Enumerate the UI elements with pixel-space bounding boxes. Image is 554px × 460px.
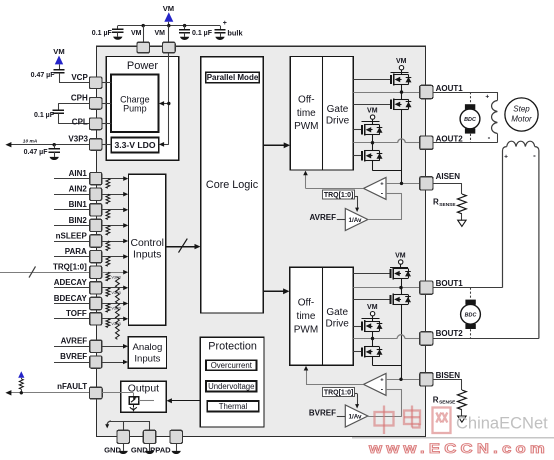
wire VM internal to charge pump and LDO bbox=[159, 53, 169, 147]
wire nSLEEP input bbox=[54, 241, 90, 243]
pin GND 1 bbox=[104, 430, 129, 454]
wire VM rail B2 bbox=[362, 318, 380, 320]
Parallel Mode box bbox=[206, 72, 260, 83]
wire AISEN to sense resistor bbox=[433, 183, 462, 194]
svg-text:VM: VM bbox=[396, 58, 407, 65]
junction VM pin1 bbox=[142, 24, 145, 27]
wire BOUT2 node with hop bbox=[353, 335, 419, 339]
wire Core Logic to PWM B bbox=[263, 288, 289, 294]
svg-text:time: time bbox=[297, 311, 316, 322]
svg-text:www.ECCN.com: www.ECCN.com bbox=[368, 441, 549, 456]
wire AOUT2 external bbox=[433, 142, 498, 144]
svg-text:BVREF: BVREF bbox=[60, 352, 87, 361]
svg-text:TRQ[1:0]: TRQ[1:0] bbox=[324, 390, 354, 397]
svg-text:PWM: PWM bbox=[294, 121, 318, 132]
svg-text:Power: Power bbox=[127, 60, 159, 72]
wire BIN1 to control inputs bbox=[102, 208, 129, 213]
transistor open-drain output bbox=[129, 396, 139, 411]
capacitor 0.1uF top-middle bbox=[179, 26, 213, 40]
pin CPL bbox=[72, 118, 111, 130]
VM supply arrow VCP bbox=[53, 47, 64, 70]
svg-text:BDC: BDC bbox=[465, 312, 477, 318]
svg-text:Inputs: Inputs bbox=[134, 353, 160, 364]
wire BVREF input bbox=[54, 362, 90, 364]
svg-text:+: + bbox=[380, 182, 384, 188]
svg-text:1/Av: 1/Av bbox=[348, 414, 362, 421]
wire nFAULT bbox=[5, 390, 89, 395]
pin AVREF bbox=[61, 336, 102, 352]
junction AOUT1 bbox=[400, 90, 403, 93]
svg-text:+: + bbox=[223, 20, 227, 27]
svg-text:AIN1: AIN1 bbox=[69, 169, 88, 178]
junction VM at charge pump bbox=[167, 102, 170, 105]
svg-text:ADECAY: ADECAY bbox=[54, 278, 88, 287]
pin GND 2 bbox=[131, 430, 156, 454]
3.3-V LDO block bbox=[111, 137, 159, 152]
wire AVREF input bbox=[309, 213, 345, 222]
svg-text:10 mA: 10 mA bbox=[23, 139, 38, 145]
junction BOUT2 bbox=[371, 337, 374, 340]
Control Inputs block bbox=[129, 174, 166, 325]
svg-text:BOUT2: BOUT2 bbox=[436, 329, 464, 338]
wire VM rail A2 bbox=[362, 121, 380, 123]
svg-text:+: + bbox=[485, 94, 489, 101]
wire gate leads B pair1 bbox=[353, 274, 390, 300]
resistor pulldown BIN1 bbox=[106, 210, 110, 220]
wire TRQ[1:0] to control inputs bbox=[102, 270, 129, 275]
capacitor 0.47uF V3P3 bbox=[24, 145, 60, 160]
pin AISEN bbox=[420, 172, 461, 190]
svg-text:-: - bbox=[488, 133, 491, 142]
resistor pulldown ADECAY bbox=[106, 288, 121, 309]
wire scaler B output bbox=[368, 416, 402, 418]
capacitor 0.1uF top-left bbox=[92, 26, 124, 40]
svg-text:Overcurrent: Overcurrent bbox=[211, 361, 253, 370]
Undervoltage box bbox=[206, 381, 257, 391]
pin AIN2 bbox=[69, 185, 102, 201]
wire ADECAY input bbox=[54, 287, 90, 289]
transistor B high-side 2 bbox=[362, 320, 383, 332]
motor BDC B bbox=[461, 288, 481, 339]
wire A2 drain-source bbox=[373, 122, 402, 171]
svg-text:Analog: Analog bbox=[132, 342, 162, 353]
pin VCP bbox=[71, 73, 111, 89]
svg-text:BDECAY: BDECAY bbox=[54, 294, 88, 303]
junction cap2 bbox=[183, 24, 186, 27]
svg-text:AVREF: AVREF bbox=[309, 213, 336, 222]
wire AIN1 to control inputs bbox=[102, 176, 129, 181]
svg-text:Undervoltage: Undervoltage bbox=[208, 382, 254, 391]
junction VM arrow bbox=[167, 24, 170, 27]
wire AIN2 input bbox=[54, 194, 90, 196]
amplifier 1/Av B bbox=[345, 405, 368, 427]
svg-text:R: R bbox=[433, 395, 439, 404]
VM pull-up arrow nFAULT bbox=[18, 371, 24, 379]
capacitor 0.47uF VCP bbox=[31, 70, 65, 79]
wire comparator A output bbox=[303, 171, 363, 189]
wire BISEN node bbox=[386, 379, 420, 381]
inductor winding A bbox=[485, 92, 497, 143]
junction AOUT2 bbox=[371, 141, 374, 144]
resistor RSENSE B bbox=[433, 390, 467, 422]
junction BOUT1 bbox=[399, 286, 402, 289]
pin TOFF bbox=[66, 309, 102, 325]
transistor A high-side 1 bbox=[391, 74, 412, 86]
TRQ[1:0] label A bbox=[323, 190, 355, 199]
svg-text:AOUT1: AOUT1 bbox=[436, 84, 464, 93]
svg-text:VM: VM bbox=[131, 30, 142, 37]
ground PPAD bbox=[172, 443, 181, 454]
svg-text:VM: VM bbox=[53, 47, 64, 56]
pin BOUT1 bbox=[420, 279, 464, 294]
junction AISEN bbox=[400, 182, 403, 185]
wire AVREF to analog inputs bbox=[102, 344, 128, 349]
wire B2 drain-source bbox=[373, 318, 402, 365]
svg-text:1/Av: 1/Av bbox=[348, 217, 362, 224]
wire output stub bbox=[139, 400, 154, 402]
wire A1 drain-source bbox=[401, 72, 403, 183]
svg-text:Control: Control bbox=[130, 238, 164, 249]
pin BOUT2 bbox=[420, 329, 464, 345]
resistor nFAULT pull-up bbox=[19, 379, 23, 393]
svg-text:BOUT1: BOUT1 bbox=[436, 279, 464, 288]
wire AIN2 to control inputs bbox=[102, 192, 129, 197]
wire ADECAY to control inputs bbox=[102, 286, 129, 291]
watermark underline bbox=[352, 437, 554, 439]
svg-text:CPH: CPH bbox=[71, 94, 88, 103]
svg-text:Protection: Protection bbox=[208, 341, 257, 353]
watermark ChinaECNet bbox=[456, 415, 548, 433]
svg-text:+: + bbox=[380, 378, 384, 384]
capacitor 0.1uF CPH-CPL bbox=[34, 103, 89, 124]
svg-text:Inputs: Inputs bbox=[133, 249, 161, 260]
svg-text:Drive: Drive bbox=[326, 115, 350, 126]
wire gate leads B pair2 bbox=[353, 327, 362, 352]
svg-text:PPAD: PPAD bbox=[150, 445, 171, 454]
svg-text:Off-: Off- bbox=[298, 298, 314, 309]
resistor pulldown nSLEEP bbox=[106, 241, 110, 251]
svg-text:AISEN: AISEN bbox=[436, 172, 461, 181]
VM tap A1 bbox=[396, 58, 407, 72]
pin VM 2 bbox=[155, 26, 176, 53]
junction nFAULT pullup bbox=[20, 391, 23, 394]
wire Protection to Output bbox=[167, 398, 201, 403]
svg-text:VM: VM bbox=[367, 108, 378, 115]
pin AOUT2 bbox=[420, 135, 464, 150]
svg-text:ChinaECNet: ChinaECNet bbox=[456, 415, 548, 433]
svg-text:VM: VM bbox=[395, 253, 406, 260]
svg-text:0.1 µF: 0.1 µF bbox=[192, 30, 213, 37]
transistor B low-side 1 bbox=[391, 294, 412, 306]
wire TRQ[1:0] input bbox=[0, 266, 90, 277]
bus Control Inputs to Core Logic bbox=[166, 239, 201, 253]
pin BDECAY bbox=[54, 294, 102, 310]
wire PARA to control inputs bbox=[102, 254, 129, 259]
capacitor bulk bbox=[214, 20, 243, 40]
ground GND2 bbox=[145, 443, 154, 454]
wire BVREF to analog inputs bbox=[102, 360, 128, 365]
svg-text:TRQ[1:0]: TRQ[1:0] bbox=[324, 192, 354, 199]
wire comparator A minus input bbox=[386, 193, 402, 219]
TRQ[1:0] label B bbox=[323, 387, 355, 396]
transistor B low-side 2 bbox=[362, 346, 383, 358]
svg-text:Step: Step bbox=[513, 105, 530, 114]
resistor RSENSE A bbox=[433, 194, 466, 226]
svg-text:-: - bbox=[533, 151, 536, 160]
svg-text:SENSE: SENSE bbox=[439, 400, 456, 406]
svg-text:TOFF: TOFF bbox=[66, 309, 87, 318]
svg-text:BDC: BDC bbox=[464, 117, 476, 123]
motor BDC A bbox=[460, 92, 480, 143]
amplifier 1/Av A bbox=[345, 209, 368, 231]
pin TRQ[1:0] bbox=[53, 263, 102, 279]
svg-text:VCP: VCP bbox=[71, 73, 88, 82]
VM tap A2 bbox=[367, 108, 378, 122]
svg-text:Parallel Mode: Parallel Mode bbox=[207, 73, 259, 82]
transistor A low-side 1 bbox=[391, 99, 412, 111]
wire scaler A output bbox=[368, 219, 402, 221]
svg-text:BIN2: BIN2 bbox=[69, 216, 88, 225]
svg-text:3.3-V LDO: 3.3-V LDO bbox=[114, 140, 155, 150]
pin V3P3 bbox=[68, 134, 111, 150]
pin AOUT1 bbox=[420, 84, 464, 99]
wire TOFF to control inputs bbox=[102, 317, 129, 322]
VM tap B2 bbox=[367, 304, 378, 318]
comparator B bbox=[364, 373, 387, 395]
wire VCP bbox=[59, 73, 89, 83]
svg-text:time: time bbox=[297, 108, 316, 119]
pin BISEN bbox=[420, 371, 461, 386]
Output block bbox=[121, 381, 166, 412]
wire TRQ to scaler B bbox=[355, 394, 359, 409]
svg-text:BVREF: BVREF bbox=[309, 409, 336, 418]
svg-text:BIN1: BIN1 bbox=[69, 200, 88, 209]
wire BOUT1 node bbox=[353, 287, 419, 289]
svg-text:Pump: Pump bbox=[123, 104, 147, 114]
transistor A low-side 2 bbox=[362, 150, 383, 162]
svg-text:0.47 µF: 0.47 µF bbox=[31, 72, 56, 79]
wire BOUT2 external bbox=[433, 338, 539, 340]
resistor pulldown BDECAY bbox=[106, 304, 121, 325]
wire BIN1 input bbox=[54, 209, 90, 211]
ground GND1 bbox=[119, 443, 128, 454]
Protection block bbox=[200, 337, 264, 427]
wire AVREF input bbox=[54, 346, 90, 348]
pin BIN2 bbox=[69, 216, 102, 232]
svg-text:R: R bbox=[433, 198, 439, 207]
wire BISEN to sense resistor bbox=[433, 379, 462, 390]
junction V3P3 cap bbox=[53, 143, 56, 146]
wire comparator B output bbox=[304, 366, 364, 385]
wire VM top rail bbox=[118, 25, 220, 27]
svg-text:PWM: PWM bbox=[294, 324, 318, 335]
junction BISEN bbox=[399, 378, 402, 381]
svg-text:Off-: Off- bbox=[298, 95, 314, 106]
svg-text:Core Logic: Core Logic bbox=[206, 179, 259, 191]
pin AIN1 bbox=[69, 169, 102, 185]
pin PARA bbox=[65, 247, 102, 263]
wire AOUT1 external bbox=[433, 92, 498, 94]
svg-text:nSLEEP: nSLEEP bbox=[56, 231, 88, 240]
pin nFAULT bbox=[57, 382, 102, 399]
Overcurrent box bbox=[206, 360, 257, 370]
resistor pulldown AIN1 bbox=[106, 179, 110, 189]
svg-text:BISEN: BISEN bbox=[436, 371, 461, 380]
wire BDECAY input bbox=[54, 303, 90, 305]
svg-text:bulk: bulk bbox=[227, 28, 243, 37]
svg-text:Thermal: Thermal bbox=[219, 402, 248, 411]
watermark character dian bbox=[404, 406, 420, 428]
svg-text:0.1 µF: 0.1 µF bbox=[92, 30, 113, 37]
svg-text:VM: VM bbox=[163, 4, 174, 13]
svg-text:SENSE: SENSE bbox=[439, 202, 456, 208]
pin CPH bbox=[71, 94, 111, 110]
wire BDECAY to control inputs bbox=[102, 301, 129, 306]
wire VM rail A1 bbox=[391, 72, 409, 74]
svg-text:V3P3: V3P3 bbox=[68, 134, 88, 143]
svg-text:VM: VM bbox=[155, 30, 166, 37]
svg-text:Gate: Gate bbox=[327, 104, 349, 115]
wire TRQ to scaler A bbox=[355, 196, 359, 212]
resistor pulldown TRQ[1:0] bbox=[106, 272, 121, 293]
wire B1 drain-source bbox=[401, 267, 403, 379]
wire GND bracket bbox=[105, 421, 149, 430]
VM supply arrow top bbox=[163, 4, 174, 26]
wire BOUT1 external bbox=[433, 287, 503, 289]
svg-text:nFAULT: nFAULT bbox=[57, 382, 87, 391]
svg-text:Drive: Drive bbox=[326, 319, 350, 330]
pin BVREF bbox=[60, 352, 102, 368]
wire AOUT1 node bbox=[353, 92, 419, 94]
wire gate leads A pair1 bbox=[353, 80, 391, 105]
resistor pulldown AIN2 bbox=[106, 194, 110, 204]
watermark character zhong bbox=[375, 406, 394, 435]
pin PPAD bbox=[150, 430, 182, 454]
wire comparator B minus input bbox=[386, 389, 402, 416]
pin ADECAY bbox=[54, 278, 102, 294]
svg-text:GND: GND bbox=[131, 445, 148, 454]
wire BIN2 to control inputs bbox=[102, 223, 129, 228]
resistor pulldown PARA bbox=[106, 257, 110, 267]
svg-text:Gate: Gate bbox=[326, 307, 348, 318]
resistor pulldown TOFF bbox=[106, 319, 121, 340]
resistor pulldown BIN2 bbox=[106, 225, 110, 235]
svg-text:CPL: CPL bbox=[72, 118, 88, 127]
svg-text:GND: GND bbox=[104, 445, 121, 454]
svg-text:AIN2: AIN2 bbox=[69, 185, 88, 194]
VM tap B1 bbox=[395, 253, 406, 268]
wire nFAULT to output FET bbox=[102, 393, 133, 397]
transistor A high-side 2 bbox=[362, 124, 383, 136]
wire AIN1 input bbox=[54, 178, 90, 180]
Analog Inputs block bbox=[128, 337, 166, 369]
Step Motor symbol bbox=[505, 98, 538, 131]
Charge Pump block bbox=[111, 75, 158, 133]
Core Logic block bbox=[201, 57, 264, 313]
wire Core Logic to PWM A bbox=[263, 142, 290, 148]
wire AISEN node bbox=[386, 183, 420, 185]
wire AOUT2 node with hop bbox=[353, 139, 419, 143]
svg-text:VM: VM bbox=[367, 304, 378, 311]
Thermal box bbox=[207, 401, 258, 412]
IC body outline bbox=[96, 46, 425, 436]
svg-text:0.1 µF: 0.1 µF bbox=[34, 112, 55, 119]
transistor B high-side 1 bbox=[391, 268, 412, 280]
wire TOFF input bbox=[54, 318, 90, 320]
svg-text:0.47 µF: 0.47 µF bbox=[24, 149, 49, 156]
Power block bbox=[106, 57, 178, 161]
wire nSLEEP to control inputs bbox=[102, 239, 129, 244]
watermark www.ECCN.com bbox=[368, 441, 549, 456]
inductor winding B bbox=[503, 141, 539, 338]
wire VM rail B1 bbox=[390, 267, 408, 269]
watermark character wang bbox=[433, 408, 451, 434]
wire V3P3 output bbox=[5, 139, 89, 148]
Off-time PWM / Gate Drive block A bbox=[290, 57, 353, 170]
wire gate leads A pair2 bbox=[353, 130, 362, 156]
wire PARA input bbox=[54, 256, 90, 258]
svg-text:PARA: PARA bbox=[65, 247, 87, 256]
wire BVREF input bbox=[309, 409, 345, 418]
pin BIN1 bbox=[69, 200, 102, 216]
svg-text:Motor: Motor bbox=[511, 115, 532, 124]
Off-time PWM / Gate Drive block B bbox=[290, 267, 354, 365]
pin nSLEEP bbox=[56, 231, 102, 247]
svg-text:TRQ[1:0]: TRQ[1:0] bbox=[53, 263, 87, 272]
wire BIN2 input bbox=[54, 225, 90, 227]
svg-text:+: + bbox=[504, 153, 508, 160]
svg-text:AVREF: AVREF bbox=[61, 336, 88, 345]
comparator A bbox=[364, 177, 387, 199]
pin VM 1 bbox=[131, 26, 149, 53]
